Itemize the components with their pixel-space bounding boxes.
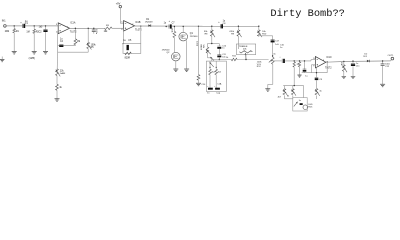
svg-text:2N7000: 2N7000 — [190, 36, 198, 38]
svg-text:TREBLE: TREBLE — [239, 46, 248, 48]
svg-text:2M2: 2M2 — [5, 31, 10, 33]
svg-text:2N7000: 2N7000 — [162, 50, 170, 52]
svg-text:100k: 100k — [91, 44, 97, 46]
svg-text:1N4148: 1N4148 — [145, 21, 153, 23]
svg-text:10: 10 — [313, 58, 315, 60]
svg-text:10n: 10n — [222, 56, 225, 58]
svg-text:IC1B: IC1B — [135, 22, 141, 24]
svg-text:IN1: IN1 — [2, 19, 6, 22]
svg-text:100n: 100n — [95, 29, 97, 35]
svg-text:TL072: TL072 — [325, 67, 332, 69]
svg-text:IC1C: IC1C — [326, 57, 332, 59]
svg-text:9: 9 — [313, 66, 314, 68]
svg-text:OUT1: OUT1 — [388, 55, 395, 57]
svg-text:(1M5): (1M5) — [29, 57, 35, 60]
svg-text:+9V: +9V — [116, 1, 121, 5]
svg-text:5: 5 — [121, 22, 122, 24]
svg-text:3: 3 — [56, 24, 57, 26]
svg-text:LED: LED — [308, 104, 313, 106]
svg-text:Dirty Bomb??: Dirty Bomb?? — [270, 8, 345, 20]
svg-text:TL072: TL072 — [70, 31, 77, 33]
svg-text:1M: 1M — [77, 41, 80, 43]
svg-text:TL072: TL072 — [135, 30, 142, 32]
svg-text:820R: 820R — [125, 58, 131, 60]
svg-text:7: 7 — [132, 24, 133, 26]
svg-text:100n: 100n — [385, 63, 390, 65]
svg-text:1: 1 — [67, 26, 68, 28]
svg-text:6: 6 — [121, 29, 122, 31]
svg-text:2: 2 — [56, 32, 57, 34]
svg-text:8: 8 — [323, 60, 324, 62]
svg-text:1M: 1M — [26, 32, 29, 34]
svg-text:1n: 1n — [222, 48, 224, 50]
